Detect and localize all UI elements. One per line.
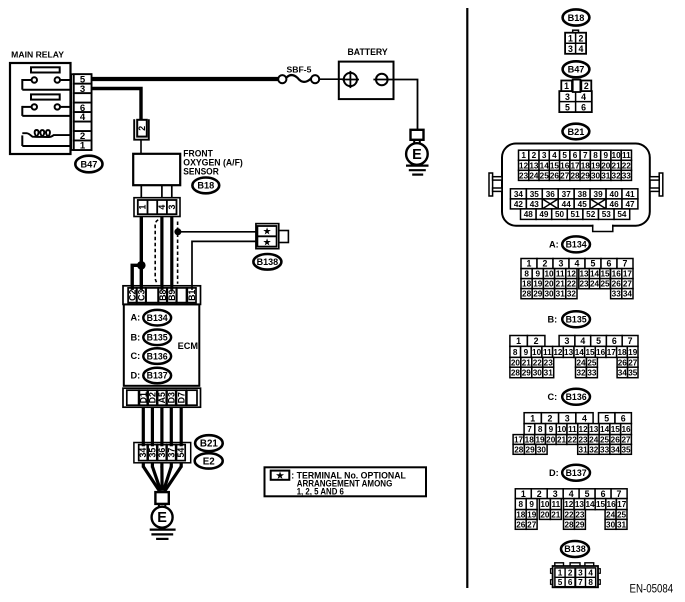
svg-text:30: 30 [537, 445, 547, 454]
svg-text:8: 8 [513, 348, 518, 357]
svg-text:29: 29 [522, 368, 532, 377]
svg-text:5: 5 [565, 102, 570, 112]
svg-text:4: 4 [569, 489, 574, 499]
svg-text:31: 31 [544, 368, 554, 377]
svg-text:30: 30 [591, 171, 601, 180]
label FRONT OXYGEN (A/F) SENSOR [183, 149, 243, 177]
svg-text:16: 16 [596, 348, 606, 357]
svg-text:12: 12 [553, 348, 563, 357]
svg-text:3: 3 [559, 259, 564, 269]
svg-text:34: 34 [611, 445, 621, 454]
svg-text:1: 1 [80, 141, 86, 152]
svg-text:24: 24 [589, 436, 599, 445]
svg-text:B134: B134 [147, 313, 168, 323]
pinout designator oval B47 [563, 61, 590, 77]
B134 pins 1-7 row [521, 259, 633, 269]
svg-text:13: 13 [589, 425, 599, 434]
svg-text:B134: B134 [566, 240, 587, 250]
svg-text:19: 19 [535, 436, 545, 445]
svg-text:5: 5 [562, 151, 567, 160]
svg-text:★: ★ [276, 470, 285, 480]
pinout label B: B135 [548, 311, 590, 327]
svg-text:8: 8 [538, 425, 543, 434]
svg-text:40: 40 [610, 190, 620, 199]
svg-text:28: 28 [522, 290, 532, 299]
fuse SBF-5 [278, 65, 319, 84]
svg-text:1: 1 [530, 413, 535, 423]
pinout connector B21 housing [489, 144, 663, 232]
svg-text:4: 4 [581, 92, 586, 102]
svg-text:15: 15 [550, 161, 560, 170]
svg-text:28: 28 [514, 445, 524, 454]
svg-text:12: 12 [564, 500, 574, 509]
svg-text:10: 10 [612, 151, 622, 160]
svg-text:3: 3 [565, 413, 570, 423]
svg-text:8: 8 [593, 151, 598, 160]
svg-text:32: 32 [567, 290, 577, 299]
svg-text:B:: B: [131, 332, 141, 342]
svg-text:41: 41 [625, 190, 635, 199]
svg-text:28: 28 [511, 368, 521, 377]
svg-text:30: 30 [606, 520, 616, 529]
svg-text:7: 7 [628, 336, 633, 346]
svg-text:11: 11 [543, 348, 552, 357]
svg-text:D:: D: [549, 468, 559, 478]
front oxygen (A/F) sensor body [133, 154, 180, 185]
relay coil (pins 2/1) [22, 130, 70, 146]
svg-text:7: 7 [578, 578, 583, 587]
svg-text:6: 6 [612, 336, 617, 346]
ECM connector row top: C2 C3 B8 B9 B1 [123, 286, 201, 305]
svg-text:9: 9 [549, 425, 554, 434]
pinout designator oval B21 [563, 124, 590, 140]
svg-text:3: 3 [167, 205, 177, 210]
pinout designator oval B18 [563, 9, 590, 25]
svg-text:10: 10 [557, 425, 567, 434]
svg-text:2: 2 [537, 489, 542, 499]
svg-text:4: 4 [575, 259, 580, 269]
svg-text:9: 9 [524, 348, 529, 357]
svg-text:23: 23 [519, 171, 529, 180]
ECM connector designator A: B134 [131, 310, 172, 326]
svg-text:6: 6 [568, 578, 573, 587]
svg-text:24: 24 [606, 511, 616, 520]
svg-text:13: 13 [529, 161, 539, 170]
svg-text:23: 23 [544, 358, 554, 367]
svg-text:3: 3 [565, 336, 570, 346]
svg-text:27: 27 [560, 171, 570, 180]
pinout connector B18 (pins 1-4) [565, 30, 586, 54]
svg-text:4: 4 [157, 205, 167, 210]
note box: terminal optional arrangement [265, 467, 427, 496]
svg-text:29: 29 [526, 445, 536, 454]
svg-text:39: 39 [594, 190, 604, 199]
svg-text:25: 25 [600, 280, 610, 289]
svg-text:15: 15 [600, 270, 610, 279]
svg-text:26: 26 [618, 358, 628, 367]
connector designator oval B138 [253, 254, 281, 270]
battery [339, 62, 394, 100]
svg-text:20: 20 [601, 161, 611, 170]
svg-text:1: 1 [564, 81, 569, 91]
svg-text:3: 3 [578, 569, 583, 578]
svg-text:33: 33 [587, 368, 597, 377]
B137 pins 1-7 row [515, 489, 627, 499]
svg-text:2: 2 [584, 81, 589, 91]
svg-text:16: 16 [621, 425, 631, 434]
svg-text:52: 52 [586, 210, 596, 219]
svg-text:2: 2 [578, 33, 583, 43]
svg-text:21: 21 [551, 511, 561, 520]
svg-text:37: 37 [562, 190, 572, 199]
svg-text:13: 13 [575, 500, 585, 509]
svg-text:35: 35 [621, 445, 631, 454]
svg-text:10: 10 [544, 270, 554, 279]
svg-text:B135: B135 [147, 333, 168, 343]
svg-text:17: 17 [623, 270, 633, 279]
svg-text:32: 32 [612, 171, 622, 180]
svg-text:15: 15 [585, 348, 595, 357]
svg-text:C3: C3 [136, 289, 146, 300]
svg-text:1: 1 [521, 151, 526, 160]
svg-text:33: 33 [600, 445, 610, 454]
svg-text:47: 47 [625, 200, 635, 209]
svg-text:25: 25 [540, 171, 550, 180]
svg-text:5: 5 [596, 336, 601, 346]
svg-text:24: 24 [590, 280, 600, 289]
svg-text:43: 43 [530, 200, 540, 209]
B136 pins 7-16 row [524, 424, 631, 435]
connector designator oval E2 [195, 453, 223, 468]
svg-text:1: 1 [558, 569, 563, 578]
relay MAIN RELAY body B47 [10, 63, 71, 154]
B135 pins 28-35 row [510, 367, 638, 378]
svg-text:9: 9 [604, 151, 609, 160]
svg-text:14: 14 [590, 270, 600, 279]
svg-text:4: 4 [578, 44, 583, 54]
svg-text:7: 7 [583, 151, 588, 160]
connector B47 pin strip (pins 5 3 6 4 2 1) [71, 74, 91, 152]
svg-text:SENSOR: SENSOR [183, 166, 219, 176]
sensor connector pins 1 4 3 [134, 198, 180, 217]
B134 pins 8-17 row [521, 269, 633, 279]
B21 pins 12-22 row [519, 160, 632, 170]
svg-text:B:: B: [548, 315, 558, 325]
wire branch junction to ECM C2 (thick) [132, 265, 141, 292]
svg-text:B138: B138 [564, 544, 586, 554]
wire sensor pin3 to ECM B9 (thick) [170, 217, 173, 293]
svg-text:22: 22 [568, 436, 578, 445]
B135 pins 20-27 row [510, 357, 638, 367]
B137 pins 18-25 row [515, 510, 627, 520]
svg-text:17: 17 [607, 348, 617, 357]
ground E (battery side) [406, 130, 429, 175]
svg-text:A:: A: [131, 313, 141, 323]
svg-text:53: 53 [602, 210, 612, 219]
svg-text:9: 9 [529, 500, 534, 509]
relay contact switch 1 (pins 5/3) [22, 77, 70, 89]
B137 pins 26-31 row [515, 519, 627, 529]
svg-text:1: 1 [138, 205, 148, 210]
B21 pins 48-54 row [521, 209, 630, 220]
svg-text:45: 45 [578, 200, 588, 209]
svg-text:11: 11 [551, 500, 560, 509]
svg-text:5: 5 [604, 413, 609, 423]
B135 pins 1-7 row [510, 336, 638, 347]
B136 pins 28-35 row [513, 444, 631, 454]
svg-text:19: 19 [591, 161, 601, 170]
svg-text:5: 5 [558, 578, 563, 587]
wire sensor pin4 to ECM B8 (thick) [160, 217, 163, 293]
svg-text:B9: B9 [167, 289, 177, 300]
ECM connector row bottom: D1 D2 A5 D3 D7 [123, 388, 201, 407]
svg-text:SBF-5: SBF-5 [287, 65, 312, 75]
connector designator oval B21 [195, 435, 223, 451]
wires ECM D1 D2 A5 D3 D7 to chassis connector (thick) [143, 407, 181, 467]
svg-text:B135: B135 [566, 315, 587, 325]
ECM connector designator B: B135 [131, 330, 172, 346]
svg-text:7: 7 [623, 259, 628, 269]
svg-text:17: 17 [570, 161, 580, 170]
svg-text:26: 26 [612, 280, 622, 289]
svg-text:4: 4 [588, 569, 593, 578]
svg-text:2: 2 [568, 569, 573, 578]
svg-text:19: 19 [628, 348, 638, 357]
svg-text:6: 6 [601, 489, 606, 499]
B21 pins 1-11 row [519, 150, 632, 160]
svg-text:50: 50 [555, 210, 565, 219]
svg-text:42: 42 [514, 200, 524, 209]
ECM connector designator C: B136 [131, 348, 172, 364]
battery positive terminal [342, 71, 359, 88]
svg-text:A:: A: [549, 240, 559, 250]
wire sensor pin1 to ECM C3 (thick) [140, 217, 143, 293]
svg-text:25: 25 [600, 436, 610, 445]
svg-text:32: 32 [589, 445, 599, 454]
ECM connector designator D: B137 [131, 368, 172, 384]
svg-text:3: 3 [568, 44, 573, 54]
shield around sensor wires (dashed, right) [177, 222, 179, 284]
separator line between schematic and pinouts [466, 8, 468, 588]
svg-text:31: 31 [601, 171, 611, 180]
svg-text:E2: E2 [203, 456, 216, 467]
svg-text:49: 49 [539, 210, 549, 219]
wire B138 star pin to ECM B1 [192, 241, 258, 292]
svg-text:6: 6 [607, 259, 612, 269]
svg-text:ECM: ECM [178, 341, 199, 351]
relay contact switch 2 (pins 6/4) [22, 104, 70, 116]
svg-text:18: 18 [581, 161, 591, 170]
B134 pins 28-34 row [521, 289, 633, 299]
wire battery negative to ground E [394, 80, 418, 130]
svg-text:3: 3 [542, 151, 547, 160]
svg-text:2: 2 [137, 126, 147, 131]
pinout label C: B136 [548, 389, 590, 405]
svg-text:19: 19 [527, 511, 537, 520]
svg-text:1: 1 [521, 489, 526, 499]
svg-text:24: 24 [529, 171, 539, 180]
wire shield drain to connector B138 pin (star) [181, 231, 258, 233]
junction on pin1 wire [138, 262, 146, 270]
svg-text:C:: C: [131, 351, 141, 361]
connector designator oval B18 [192, 178, 219, 194]
svg-text:28: 28 [570, 171, 580, 180]
svg-text:E: E [412, 147, 422, 163]
svg-text:17: 17 [514, 436, 524, 445]
svg-text:20: 20 [511, 358, 521, 367]
svg-text:8: 8 [524, 270, 529, 279]
svg-text:MAIN RELAY: MAIN RELAY [11, 50, 64, 60]
svg-text:D7: D7 [176, 392, 186, 403]
svg-text:22: 22 [533, 358, 543, 367]
svg-text:B136: B136 [566, 392, 587, 402]
svg-text:27: 27 [628, 358, 638, 367]
svg-text:B1: B1 [187, 289, 197, 300]
svg-text:E: E [157, 510, 167, 526]
svg-text:9: 9 [536, 270, 541, 279]
svg-text:18: 18 [522, 280, 532, 289]
svg-text:36: 36 [546, 190, 556, 199]
svg-text:28: 28 [564, 520, 574, 529]
svg-text:D:: D: [131, 371, 141, 381]
svg-text:46: 46 [610, 200, 620, 209]
svg-text:21: 21 [557, 436, 567, 445]
svg-text:19: 19 [533, 280, 543, 289]
svg-text:12: 12 [519, 161, 529, 170]
svg-text:5: 5 [591, 259, 596, 269]
svg-text:10: 10 [540, 500, 550, 509]
shield around sensor wires (dashed, left) [155, 220, 158, 284]
svg-text:33: 33 [622, 171, 632, 180]
svg-text:17: 17 [617, 500, 627, 509]
pinout connector B138 (pins 1-8) [551, 563, 601, 588]
svg-text:2: 2 [532, 151, 537, 160]
svg-text:13: 13 [579, 270, 589, 279]
svg-text:21: 21 [612, 161, 622, 170]
svg-text:15: 15 [596, 500, 606, 509]
svg-text:54: 54 [176, 448, 186, 458]
wire fuse to battery positive [319, 78, 344, 80]
svg-text:23: 23 [578, 436, 588, 445]
svg-text:5: 5 [585, 489, 590, 499]
svg-text:51: 51 [571, 210, 581, 219]
svg-text:D3: D3 [166, 392, 176, 403]
svg-text:25: 25 [617, 511, 627, 520]
wire terminal 2 to sensor body [140, 139, 142, 154]
pinout designator oval B138 [561, 541, 589, 557]
svg-text:B47: B47 [80, 159, 97, 169]
svg-text:31: 31 [556, 290, 566, 299]
wires funnel to ground (thick) [143, 467, 181, 491]
B21 pins 42-47 row (two blocked cells) [510, 199, 638, 209]
svg-text:18: 18 [516, 511, 526, 520]
svg-text:31: 31 [579, 445, 589, 454]
svg-text:33: 33 [612, 290, 622, 299]
svg-text:6: 6 [621, 413, 626, 423]
svg-text:B18: B18 [568, 13, 585, 23]
B21 pins 34-41 row [510, 189, 638, 199]
svg-text:4: 4 [580, 336, 585, 346]
svg-text:8: 8 [519, 500, 524, 509]
svg-text:35: 35 [148, 448, 158, 458]
svg-text:22: 22 [622, 161, 632, 170]
pinout label D: B137 [549, 465, 590, 481]
svg-text:26: 26 [611, 436, 621, 445]
svg-text:20: 20 [544, 280, 554, 289]
svg-text:26: 26 [516, 520, 526, 529]
svg-text:20: 20 [546, 436, 556, 445]
svg-text:11: 11 [622, 151, 631, 160]
junction shield drain to B138 [175, 229, 181, 235]
svg-text:29: 29 [533, 290, 543, 299]
svg-text:54: 54 [617, 210, 627, 219]
relay armature bar 2 [31, 94, 60, 99]
svg-text:B47: B47 [568, 65, 585, 75]
B137 pins 8-17 row [515, 499, 627, 510]
svg-text:48: 48 [524, 210, 534, 219]
svg-text:1, 2, 5 AND 6: 1, 2, 5 AND 6 [297, 486, 344, 496]
B21 pins 23-33 row [519, 170, 632, 180]
B134 pins 18-27 row [521, 279, 633, 289]
svg-text:27: 27 [527, 520, 537, 529]
svg-text:14: 14 [600, 425, 610, 434]
ground E (ECM side) [150, 492, 176, 539]
wire stubs into chassis connector cells [143, 443, 181, 447]
svg-text:29: 29 [581, 171, 591, 180]
svg-text:2: 2 [543, 259, 548, 269]
svg-text:12: 12 [567, 270, 577, 279]
svg-text:2: 2 [548, 413, 553, 423]
svg-text:34: 34 [514, 190, 524, 199]
svg-text:8: 8 [588, 578, 593, 587]
svg-text:B18: B18 [197, 181, 214, 191]
svg-text:35: 35 [530, 190, 540, 199]
svg-text:29: 29 [575, 520, 585, 529]
svg-text:1: 1 [568, 33, 573, 43]
svg-text:EN-05084: EN-05084 [630, 584, 674, 596]
svg-text:34: 34 [623, 290, 633, 299]
B135 pins 8-19 row [510, 346, 638, 357]
svg-text:4: 4 [582, 413, 587, 423]
svg-text:11: 11 [556, 270, 565, 279]
connector designator oval B47 [75, 156, 102, 173]
svg-text:B137: B137 [147, 371, 168, 381]
svg-text:D2: D2 [148, 392, 158, 403]
svg-text:3: 3 [553, 489, 558, 499]
wire relay pin3 to sensor connector terminal 2 (thick) [92, 89, 142, 120]
svg-text:2: 2 [534, 336, 539, 346]
svg-text:6: 6 [581, 102, 586, 112]
pinout connector B47 (pins 1-6) [559, 80, 592, 113]
battery negative terminal [373, 74, 393, 86]
svg-text:7: 7 [527, 425, 532, 434]
svg-text:14: 14 [585, 500, 595, 509]
svg-text:11: 11 [568, 425, 577, 434]
B136 pins 1-6 row [524, 413, 631, 424]
svg-text:27: 27 [623, 280, 633, 289]
svg-text:BATTERY: BATTERY [348, 47, 388, 57]
svg-text:21: 21 [522, 358, 532, 367]
svg-text:B21: B21 [567, 127, 584, 137]
svg-text:C:: C: [548, 392, 558, 402]
svg-text:14: 14 [575, 348, 585, 357]
svg-text:22: 22 [564, 511, 574, 520]
svg-text:B138: B138 [257, 257, 279, 267]
wire stubs sensor to connector pins [141, 185, 172, 198]
svg-text:6: 6 [573, 151, 578, 160]
svg-text:14: 14 [540, 161, 550, 170]
pinout label A: B134 [549, 236, 590, 252]
